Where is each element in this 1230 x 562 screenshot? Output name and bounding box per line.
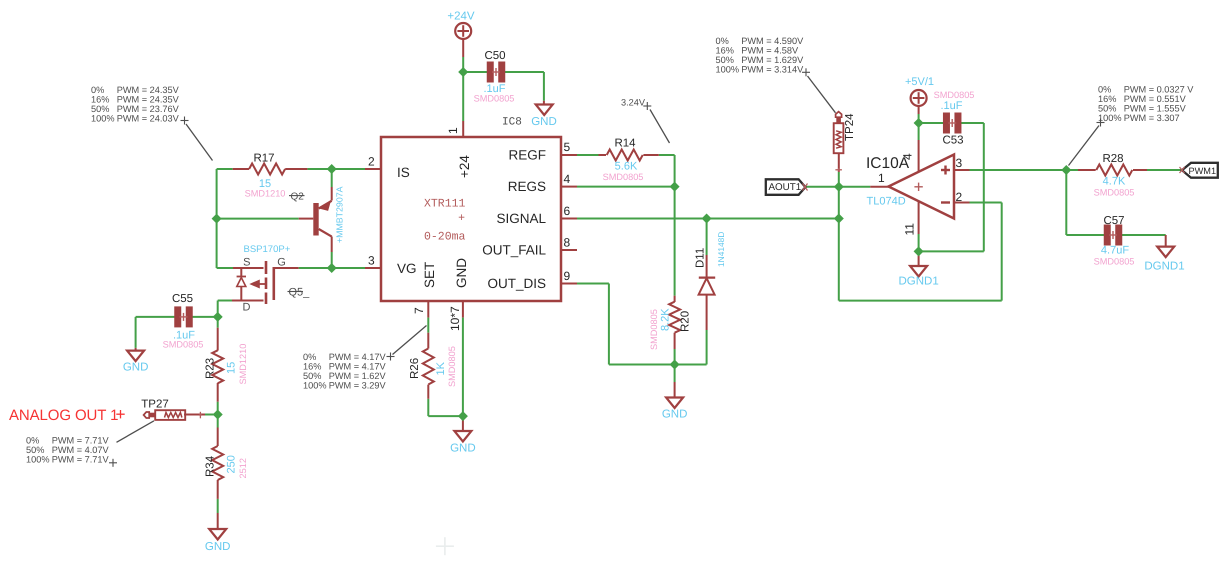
svg-text:R17: R17 (253, 153, 274, 165)
wire junction to R23 (217, 317, 219, 328)
+5V/1 supply (905, 76, 934, 106)
svg-text:XTR111: XTR111 (424, 198, 466, 211)
wire pin 6 SIGNAL row (561, 218, 707, 220)
svg-text:PWM = 1.62V: PWM = 1.62V (329, 371, 387, 381)
svg-text:PWM = 3.307: PWM = 3.307 (1124, 113, 1180, 123)
svg-text:100%: 100% (26, 454, 50, 464)
svg-text:IC8: IC8 (502, 117, 522, 129)
XTR111 value label (424, 198, 466, 244)
svg-text:PWM = 4.17V: PWM = 4.17V (329, 352, 387, 362)
svg-text:100%: 100% (1098, 113, 1122, 123)
test point TP24 (834, 112, 856, 172)
resistor R17 (233, 153, 308, 199)
wire Q2 emitter to IS net (331, 169, 333, 201)
wire pin 4 up (918, 123, 920, 172)
svg-text:PWM = 23.76V: PWM = 23.76V (117, 104, 180, 114)
junction (835, 214, 844, 223)
wire C53 right down (919, 123, 984, 251)
+24V supply (447, 11, 475, 40)
wire D11 top (706, 219, 708, 277)
junction (459, 412, 468, 421)
resistor R34 (205, 428, 249, 499)
wire pin 10*7 down (462, 301, 464, 416)
svg-text:250: 250 (226, 455, 238, 473)
IC8 name label (502, 117, 522, 129)
ground GND mid (662, 398, 688, 421)
svg-text:SET: SET (422, 262, 437, 288)
svg-text:BSP170P+: BSP170P+ (244, 244, 291, 255)
op-amp IC10A (866, 155, 954, 219)
wire feedback right vertical (1001, 203, 1003, 301)
svg-text:REGS: REGS (508, 179, 546, 194)
wire Q5 source (217, 267, 264, 269)
svg-text:50%: 50% (303, 371, 321, 381)
svg-text:AOUT1: AOUT1 (769, 182, 802, 193)
wire R14 to REGS junction (659, 155, 675, 187)
resistor R26 (409, 333, 457, 399)
op-amp U1 XTR111 body (381, 137, 561, 301)
svg-text:Q2: Q2 (291, 192, 305, 203)
svg-text:PWM = 4.17V: PWM = 4.17V (329, 362, 387, 372)
svg-text:PWM = 1.629V: PWM = 1.629V (741, 55, 804, 65)
wire AOUT1 to node (806, 186, 839, 188)
origin cross (436, 537, 454, 555)
svg-text:.1uF: .1uF (940, 100, 962, 112)
node label ANALOG OUT 1 (9, 407, 125, 424)
svg-text:4: 4 (901, 153, 915, 160)
wire pin 3 row (954, 169, 1066, 171)
junction (914, 119, 923, 128)
wire SIGNAL to opamp node (707, 218, 839, 220)
svg-text:4.7K: 4.7K (1103, 176, 1126, 188)
wire pin 9 OUT_DIS (561, 284, 609, 365)
wire Q5 gate (275, 267, 332, 269)
svg-text:50%: 50% (26, 445, 44, 455)
junction (213, 410, 222, 419)
capacitor C50 (474, 50, 515, 104)
svg-text:G: G (277, 257, 286, 269)
svg-text:R26: R26 (409, 358, 421, 379)
svg-text:3.24V: 3.24V (621, 98, 646, 108)
svg-text:+MMBT2907A: +MMBT2907A (335, 186, 345, 243)
ground DGND1 under C57 (1144, 247, 1184, 273)
resistor R14 (599, 138, 659, 183)
svg-text:+24V: +24V (447, 11, 475, 23)
svg-text:3: 3 (956, 156, 963, 170)
svg-text:16%: 16% (1098, 94, 1116, 104)
svg-text:100%: 100% (303, 381, 327, 391)
svg-text:0%: 0% (716, 36, 729, 46)
svg-text:PWM = 3.29V: PWM = 3.29V (329, 381, 387, 391)
svg-text:SMD0805: SMD0805 (474, 94, 515, 104)
capacitor C53 (934, 90, 975, 147)
svg-text:2512: 2512 (238, 458, 248, 478)
svg-text:D: D (243, 302, 251, 314)
svg-text:DGND1: DGND1 (898, 276, 938, 288)
svg-text:16%: 16% (716, 45, 734, 55)
svg-text:PWM = 7.71V: PWM = 7.71V (52, 454, 110, 464)
svg-text:TP24: TP24 (844, 113, 856, 141)
svg-text:+5V/1: +5V/1 (905, 76, 934, 88)
svg-text:15: 15 (226, 362, 238, 374)
svg-text:SMD0805: SMD0805 (603, 172, 644, 182)
junction (327, 264, 336, 273)
svg-text:PWM1: PWM1 (1189, 166, 1217, 176)
capacitor C57 (1094, 215, 1135, 267)
annotation PWM 0.0327V block (1069, 84, 1195, 165)
wire pin 5 to R14 (561, 154, 599, 156)
svg-text:SMD0805: SMD0805 (1094, 257, 1135, 267)
ground GND under C50 (531, 105, 557, 129)
annotation PWM 7.71V block (26, 421, 154, 467)
svg-text:SIGNAL: SIGNAL (496, 211, 546, 226)
svg-text:+: + (458, 212, 465, 225)
svg-text:PWM = 4.590V: PWM = 4.590V (741, 36, 804, 46)
svg-text:PWM = 4.07V: PWM = 4.07V (52, 445, 110, 455)
wire +5V stub (918, 106, 920, 123)
annotation PWM 4.17V block (303, 326, 427, 391)
svg-text:8: 8 (564, 236, 571, 250)
svg-text:C55: C55 (172, 293, 193, 305)
svg-text:GND: GND (662, 408, 688, 420)
svg-text:2: 2 (368, 155, 375, 169)
capacitor C55 (163, 293, 204, 350)
junction (213, 313, 222, 322)
svg-text:7: 7 (412, 307, 426, 314)
junction (670, 360, 679, 369)
XTR111 pin numbers (368, 127, 571, 331)
annotation PWM 4.590V block (716, 36, 836, 113)
svg-text:3: 3 (368, 254, 375, 268)
wire TP27 to junction (184, 414, 218, 416)
svg-text:OUT_FAIL: OUT_FAIL (482, 243, 546, 258)
svg-text:PWM = 24.35V: PWM = 24.35V (117, 85, 180, 95)
ground GND under 10*7 (450, 431, 476, 454)
svg-text:50%: 50% (1098, 103, 1116, 113)
net tag AOUT1 (766, 179, 808, 195)
resistor R28 (1078, 153, 1147, 198)
svg-text:+24: +24 (457, 155, 472, 178)
wire opamp output (839, 186, 889, 188)
svg-text:0%: 0% (303, 352, 316, 362)
ground DGND1 under opamp (898, 266, 938, 288)
svg-text:PWM = 24.03V: PWM = 24.03V (117, 114, 180, 124)
wire pin 2 row (954, 202, 1002, 204)
svg-text:R28: R28 (1102, 153, 1123, 165)
wire C55 row (136, 316, 218, 318)
svg-text:S: S (243, 257, 250, 269)
junction (459, 68, 468, 77)
wire R20 to GND junction (674, 349, 676, 365)
svg-text:50%: 50% (91, 104, 109, 114)
svg-text:4.7uF: 4.7uF (1101, 245, 1129, 257)
svg-text:R20: R20 (680, 311, 692, 332)
wire Q2 collector to VG net (331, 237, 333, 269)
svg-text:IS: IS (397, 165, 410, 180)
svg-text:0-20ma: 0-20ma (424, 231, 466, 244)
wire GND stub mid (674, 365, 676, 398)
svg-text:SMD0805: SMD0805 (934, 90, 975, 100)
wire junction to XTR111 pin 1 (462, 72, 464, 137)
wire pin 7 to R26 (427, 301, 429, 333)
svg-text:PWM = 4.58V: PWM = 4.58V (741, 45, 799, 55)
svg-text:5: 5 (564, 140, 571, 154)
svg-text:R14: R14 (614, 138, 636, 150)
annotation PWM 24V block (91, 85, 213, 161)
wire feedback bottom (839, 300, 1002, 302)
svg-text:Q5_: Q5_ (289, 287, 311, 299)
svg-text:SMD1210: SMD1210 (238, 344, 248, 385)
junction (670, 182, 679, 191)
junction (835, 183, 844, 192)
svg-text:VG: VG (397, 261, 417, 276)
wire VG row to pin 3 (332, 267, 381, 269)
svg-text:100%: 100% (716, 65, 740, 75)
wire pin 8 stub (561, 249, 577, 251)
wire R23 to TP27 junction (217, 402, 219, 415)
svg-text:PWM = 7.71V: PWM = 7.71V (52, 435, 110, 445)
svg-text:100%: 100% (91, 114, 115, 124)
svg-text:REGF: REGF (508, 148, 546, 163)
svg-text:10*7: 10*7 (448, 306, 462, 331)
svg-text:50%: 50% (716, 55, 734, 65)
wire R17 net left vertical (216, 169, 218, 268)
net tag PWM1 (1180, 163, 1218, 178)
svg-text:PWM = 0.0327 V: PWM = 0.0327 V (1124, 84, 1195, 94)
svg-text:GND: GND (531, 116, 557, 128)
svg-text:D11: D11 (695, 248, 707, 268)
junction (212, 214, 221, 223)
IC10A pin numbers (878, 153, 963, 236)
svg-text:OUT_DIS: OUT_DIS (487, 276, 546, 291)
wire node vertical (838, 187, 840, 301)
wire R28 to PWM1 (1147, 169, 1182, 171)
svg-text:8.2K: 8.2K (660, 308, 672, 331)
wire pin 4 REGS row (561, 186, 675, 188)
ground GND under C55 (123, 351, 149, 374)
svg-text:11: 11 (903, 223, 917, 236)
svg-text:1: 1 (878, 171, 885, 185)
wire C53 left (919, 122, 945, 124)
svg-text:C50: C50 (484, 50, 505, 62)
svg-text:SMD0805: SMD0805 (163, 340, 204, 350)
svg-text:PWM = 1.555V: PWM = 1.555V (1124, 103, 1187, 113)
wire R17 row (217, 168, 381, 170)
wire C57 right to DGND1 (1120, 235, 1166, 247)
diode D11 (695, 232, 727, 295)
wire C55 left to GND (135, 317, 137, 351)
svg-text:1: 1 (446, 127, 460, 134)
svg-text:GND: GND (205, 541, 231, 553)
wire +24V to C50 junction (462, 39, 464, 72)
svg-text:16%: 16% (303, 362, 321, 372)
wire TP24 down (838, 153, 840, 187)
svg-text:6: 6 (564, 204, 571, 218)
wire Q2 base (217, 218, 299, 220)
svg-text:GND: GND (123, 362, 149, 374)
junction (1062, 166, 1071, 175)
svg-text:TP27: TP27 (141, 399, 169, 411)
svg-text:SMD1210: SMD1210 (245, 189, 286, 199)
test point TP27 (141, 399, 202, 420)
svg-text:GND: GND (454, 258, 469, 288)
transistor Q2 (289, 186, 345, 243)
svg-text:C53: C53 (942, 135, 963, 147)
junction (702, 214, 711, 223)
wire Q5 drain to C55 junction (218, 301, 264, 317)
wire DGND1 stub (918, 251, 920, 266)
svg-text:0%: 0% (1098, 84, 1111, 94)
wire junction to C50 left (463, 71, 489, 73)
svg-text:0%: 0% (91, 85, 104, 95)
svg-text:5.6K: 5.6K (615, 161, 638, 173)
svg-text:PWM = 0.551V: PWM = 0.551V (1124, 94, 1187, 104)
resistor R20 (649, 296, 692, 350)
svg-text:GND: GND (450, 442, 476, 454)
junction (914, 247, 923, 256)
wire junction down to C57 (1066, 170, 1106, 235)
svg-text:C57: C57 (1103, 215, 1124, 227)
svg-text:DGND1: DGND1 (1144, 261, 1184, 273)
wire R28 left (1066, 169, 1078, 171)
wire pin 11 down (918, 202, 920, 252)
svg-text:R23: R23 (205, 358, 217, 379)
svg-text:PWM = 3.314V: PWM = 3.314V (741, 65, 804, 75)
svg-text:16%: 16% (91, 95, 109, 105)
resistor R23 (205, 328, 249, 402)
svg-text:1N4148D: 1N4148D (716, 232, 726, 267)
wire GND stub right (462, 416, 464, 431)
svg-text:4: 4 (564, 172, 571, 186)
svg-text:0%: 0% (26, 435, 39, 445)
wire junction to R34 (217, 415, 219, 428)
wire R26 to GND row (428, 399, 463, 416)
wire D11 bottom (706, 295, 708, 365)
svg-text:2: 2 (956, 190, 963, 204)
svg-text:SMD0805: SMD0805 (649, 309, 659, 350)
svg-text:PWM = 24.35V: PWM = 24.35V (117, 95, 180, 105)
svg-text:ANALOG OUT 1: ANALOG OUT 1 (9, 407, 118, 424)
svg-text:SMD0805: SMD0805 (1094, 188, 1135, 198)
transistor Q5 (237, 244, 311, 314)
wire REGS junction down to R20 (674, 187, 676, 296)
wire R34 to GND (217, 499, 219, 529)
annotation 3.24V (621, 98, 670, 144)
wire C50 right to GND (504, 72, 544, 105)
svg-text:9: 9 (564, 269, 571, 283)
junction (327, 165, 336, 174)
svg-text:SMD0805: SMD0805 (447, 346, 457, 387)
svg-text:TL074D: TL074D (867, 196, 906, 208)
ground GND under R34 (205, 529, 231, 553)
svg-text:1K: 1K (435, 361, 447, 375)
svg-text:R34: R34 (205, 455, 217, 477)
wire bottom GND row (609, 364, 707, 366)
